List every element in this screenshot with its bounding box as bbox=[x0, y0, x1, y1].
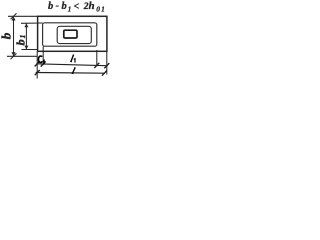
extension line down from void left edge bbox=[42, 46, 44, 65]
tick at row2 left bbox=[35, 70, 40, 75]
small inner rectangle bbox=[64, 30, 77, 38]
third rectangle bbox=[57, 26, 91, 43]
svg-text:b: b bbox=[62, 1, 67, 12]
svg-text:1: 1 bbox=[68, 6, 72, 14]
middle rectangle (void outline) bbox=[43, 23, 97, 46]
tick at c1 left bbox=[35, 61, 40, 66]
svg-text:1: 1 bbox=[18, 35, 27, 39]
dimension line b bbox=[11, 13, 17, 59]
tick at l1 right bbox=[94, 63, 99, 68]
extension line down from outer right edge bbox=[106, 52, 108, 75]
dimension line b1 bbox=[24, 23, 28, 49]
formula b - b1 < 2h01 bbox=[48, 0, 106, 14]
tick at row1 far right bbox=[104, 63, 109, 68]
svg-text:-: - bbox=[56, 0, 59, 11]
svg-text:h: h bbox=[89, 0, 95, 12]
svg-text:<: < bbox=[74, 1, 80, 12]
dimension row 1 line bbox=[36, 64, 106, 66]
svg-text:b: b bbox=[0, 32, 13, 39]
extension line top for b bbox=[8, 15, 38, 17]
dimension row 2 line (total l) bbox=[36, 72, 105, 75]
svg-text:01: 01 bbox=[96, 5, 106, 14]
extension line down from void right edge bbox=[96, 50, 98, 66]
label b1 (rotated) bbox=[13, 35, 27, 46]
label l bbox=[73, 67, 76, 73]
label c1 bbox=[38, 56, 44, 64]
label l1 bbox=[71, 55, 75, 63]
label b (rotated) bbox=[0, 32, 13, 39]
svg-text:b: b bbox=[13, 39, 27, 45]
outer rectangle (element outline) bbox=[38, 16, 107, 51]
tick at c1 right bbox=[41, 61, 46, 66]
tick at row2 right bbox=[102, 71, 107, 76]
extension line top for b1 bbox=[21, 22, 43, 24]
svg-text:b: b bbox=[48, 1, 53, 12]
extension line down from outer left edge bbox=[36, 51, 38, 78]
extension line bottom for b bbox=[7, 55, 37, 57]
extension line bottom for b1 bbox=[22, 49, 38, 51]
